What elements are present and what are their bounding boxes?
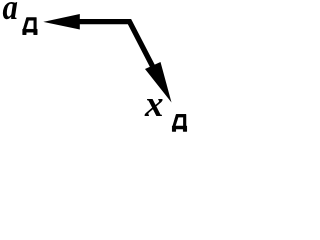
arrowhead pointing down-right (on diagonal segment) xyxy=(145,62,172,103)
arrowhead pointing left (on horizontal segment) xyxy=(43,14,80,30)
svg-text:x: x xyxy=(144,84,164,125)
label д subscript of x xyxy=(172,114,187,131)
label д subscript of a xyxy=(23,18,38,35)
svg-text:a: a xyxy=(3,0,18,28)
wire: bent arrow shaft (horizontal then diagonal) xyxy=(78,22,155,71)
